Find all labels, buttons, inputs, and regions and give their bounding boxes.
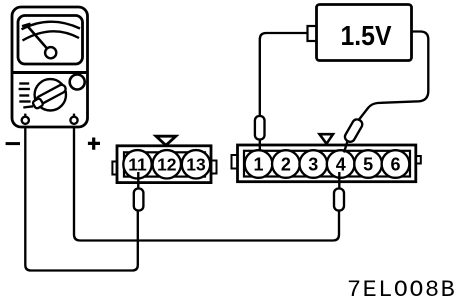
index marker triangle above J2 [320,134,334,144]
plus terminal stub [73,114,75,118]
svg-text:1: 1 [253,155,263,175]
svg-text:12: 12 [157,155,177,175]
connector J1 right tab [211,161,217,174]
svg-text:6: 6 [390,155,400,175]
range markings dash 3 [19,94,29,96]
svg-text:2: 2 [281,155,291,175]
connector J1 inner housing [124,152,205,176]
pin 13 [182,150,210,178]
connector J2 outer housing [238,145,416,182]
pin 11 [123,150,151,178]
wire pin11 probe tip into pin 11 [137,172,139,190]
range markings dash 5 [23,106,33,107]
range markings dash 2 [19,88,30,90]
meter scale lower arc [23,31,80,40]
range selector dial [35,79,66,110]
probe on pin 4 (below) [334,189,344,211]
meter scale upper arc [22,22,81,30]
svg-text:4: 4 [336,155,346,175]
wire pin1 probe tip into pin 1 [259,138,261,151]
wire pin4 top probe tip into pin 4 [344,141,348,153]
meter panel separator [12,71,88,74]
plus terminal [70,117,77,124]
minus label [6,142,20,145]
connector J2 right tab [415,156,421,164]
selector knob bar [35,83,67,105]
pin 4 [327,150,355,178]
range markings dash 1 [19,82,29,84]
battery B1 1.5V [317,5,412,61]
index marker triangle above J1 [156,136,176,145]
sub-dial small circle [70,75,85,90]
meter needle [26,25,51,53]
minus terminal stub [24,114,26,118]
pin 6 [382,150,410,178]
svg-text:1.5V: 1.5V [341,20,392,51]
pin 12 [153,150,181,178]
pin 3 [299,150,327,178]
svg-text:3: 3 [308,155,318,175]
svg-text:11: 11 [128,155,147,175]
pin 5 [354,150,382,178]
probe on pin 1 [255,116,265,140]
minus terminal [22,117,29,124]
pin 1 [245,150,273,178]
meter needle tip tick [22,24,31,27]
probe on pin 11 (below) [134,189,144,211]
wire battery positive to pin 4 [358,32,429,122]
wire battery negative to pin 1 [260,33,308,117]
pin 2 [272,150,300,178]
connector J2 (6-pin: 1-6) left tab [232,155,239,169]
probe on pin 4 (angled) [343,118,364,144]
multimeter body [12,7,88,127]
selector knob tip [32,98,44,109]
svg-text:13: 13 [186,155,206,175]
wire meter plus terminal to pin 4 bottom [74,124,339,241]
svg-text:5: 5 [363,155,373,175]
wire pin4 bottom probe tip into pin 4 [338,172,340,190]
meter display window [18,16,83,65]
svg-text:7ELOO8B: 7ELOO8B [347,277,456,302]
range markings dash 4 [19,100,30,102]
battery terminal nub [308,26,318,41]
meter needle pivot [45,47,56,58]
wire meter minus terminal to pin 11 [25,124,138,271]
connector J1 (3-pin: 11,12,13) left tab [112,162,118,175]
connector J2 inner housing [244,151,410,177]
plus label [88,138,100,150]
connector J1 outer housing [117,146,211,183]
